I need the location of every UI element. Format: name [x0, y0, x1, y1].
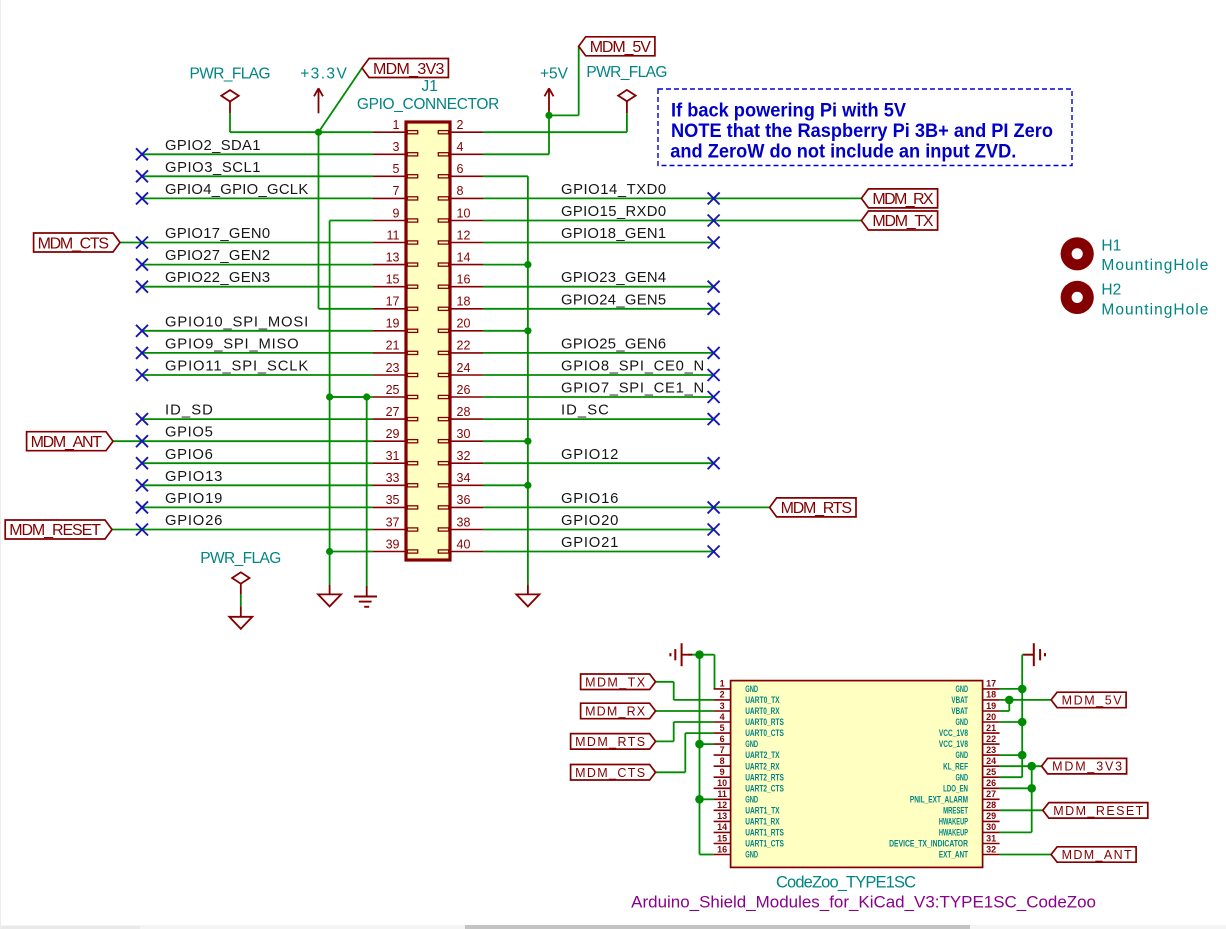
svg-text:GPIO25_GEN6: GPIO25_GEN6 [561, 336, 666, 352]
svg-text:14: 14 [457, 250, 471, 264]
svg-text:23: 23 [986, 745, 996, 755]
svg-text:MDM_5V: MDM_5V [590, 39, 652, 56]
svg-text:11: 11 [387, 228, 400, 242]
svg-text:GND: GND [745, 794, 758, 804]
svg-text:GPIO4_GPIO_GCLK: GPIO4_GPIO_GCLK [165, 182, 308, 198]
svg-text:HWAKEUP: HWAKEUP [939, 817, 968, 827]
svg-text:GPIO19: GPIO19 [165, 491, 222, 507]
svg-text:35: 35 [386, 493, 400, 507]
svg-text:25: 25 [386, 383, 400, 397]
svg-text:MountingHole: MountingHole [1101, 257, 1208, 274]
svg-text:19: 19 [986, 701, 996, 711]
svg-text:9: 9 [720, 767, 725, 777]
svg-text:MDM_RESET: MDM_RESET [1053, 804, 1143, 818]
svg-text:14: 14 [717, 822, 727, 832]
svg-text:30: 30 [457, 427, 471, 441]
svg-text:ID_SC: ID_SC [561, 403, 609, 419]
svg-text:H2: H2 [1101, 282, 1121, 299]
svg-text:20: 20 [986, 712, 996, 722]
svg-text:GPIO16: GPIO16 [561, 491, 618, 507]
svg-text:MDM_5V: MDM_5V [1062, 693, 1123, 707]
svg-text:37: 37 [386, 515, 400, 529]
svg-text:GPIO23_GEN4: GPIO23_GEN4 [561, 270, 666, 286]
svg-text:11: 11 [717, 789, 727, 799]
svg-text:UART0_RTS: UART0_RTS [745, 717, 784, 727]
svg-text:22: 22 [986, 734, 996, 744]
svg-text:MDM_RTS: MDM_RTS [781, 500, 852, 517]
svg-text:16: 16 [457, 273, 471, 287]
svg-text:32: 32 [986, 844, 996, 854]
svg-text:24: 24 [986, 756, 996, 766]
svg-text:VBAT: VBAT [951, 695, 968, 705]
svg-text:3: 3 [720, 701, 725, 711]
svg-text:HWAKEUP: HWAKEUP [939, 828, 968, 838]
svg-text:MDM_RX: MDM_RX [872, 191, 934, 208]
svg-text:UART0_RX: UART0_RX [745, 706, 779, 716]
svg-text:MDM_3V3: MDM_3V3 [373, 61, 444, 78]
svg-text:MDM_TX: MDM_TX [585, 675, 646, 689]
svg-text:GND: GND [956, 717, 969, 727]
svg-text:39: 39 [386, 537, 400, 551]
svg-text:15: 15 [717, 833, 727, 843]
svg-text:1: 1 [720, 679, 725, 689]
svg-text:PWR_FLAG: PWR_FLAG [200, 550, 281, 567]
svg-text:MountingHole: MountingHole [1101, 301, 1208, 318]
svg-text:15: 15 [386, 273, 400, 287]
svg-text:36: 36 [457, 493, 471, 507]
svg-text:4: 4 [720, 712, 725, 722]
svg-text:VCC_1V8: VCC_1V8 [939, 739, 968, 749]
svg-text:GND: GND [956, 772, 969, 782]
svg-text:UART0_CTS: UART0_CTS [745, 728, 784, 738]
svg-text:GPIO17_GEN0: GPIO17_GEN0 [165, 226, 270, 242]
svg-text:MDM_TX: MDM_TX [872, 213, 934, 230]
svg-text:GPIO_CONNECTOR: GPIO_CONNECTOR [357, 96, 499, 113]
svg-text:23: 23 [386, 361, 400, 375]
svg-text:UART1_RX: UART1_RX [745, 817, 779, 827]
svg-text:18: 18 [986, 690, 996, 700]
svg-text:9: 9 [393, 206, 400, 220]
svg-text:GND: GND [745, 684, 758, 694]
svg-text:GPIO21: GPIO21 [561, 535, 618, 551]
svg-text:GPIO18_GEN1: GPIO18_GEN1 [561, 226, 666, 242]
svg-text:GND: GND [745, 739, 758, 749]
svg-text:DEVICE_TX_INDICATOR: DEVICE_TX_INDICATOR [889, 839, 968, 849]
svg-text:12: 12 [717, 800, 727, 810]
svg-text:MDM_RESET: MDM_RESET [9, 522, 101, 539]
svg-text:2: 2 [457, 118, 464, 132]
svg-text:VBAT: VBAT [951, 706, 968, 716]
svg-text:3: 3 [393, 140, 400, 154]
svg-text:22: 22 [457, 339, 471, 353]
svg-text:24: 24 [457, 361, 471, 375]
svg-text:19: 19 [386, 317, 400, 331]
svg-text:GPIO27_GEN2: GPIO27_GEN2 [165, 248, 270, 264]
svg-text:+5V: +5V [540, 65, 569, 82]
svg-text:21: 21 [386, 339, 400, 353]
svg-text:12: 12 [457, 228, 471, 242]
svg-text:LDO_EN: LDO_EN [943, 783, 968, 793]
svg-text:40: 40 [457, 537, 471, 551]
svg-text:7: 7 [720, 745, 725, 755]
svg-text:MDM_CTS: MDM_CTS [38, 235, 109, 252]
svg-text:17: 17 [986, 679, 996, 689]
svg-text:6: 6 [720, 734, 725, 744]
svg-text:26: 26 [986, 778, 996, 788]
svg-text:GPIO11_SPI_SCLK: GPIO11_SPI_SCLK [165, 359, 308, 375]
svg-text:UART1_CTS: UART1_CTS [745, 839, 784, 849]
svg-text:MDM_ANT: MDM_ANT [31, 434, 103, 451]
svg-text:18: 18 [457, 295, 471, 309]
svg-text:GPIO6: GPIO6 [165, 447, 213, 463]
svg-text:GND: GND [745, 850, 758, 860]
svg-text:KL_REF: KL_REF [943, 761, 968, 771]
svg-text:EXT_ANT: EXT_ANT [939, 850, 968, 860]
svg-text:1: 1 [393, 118, 400, 132]
svg-text:H1: H1 [1101, 237, 1121, 254]
svg-text:28: 28 [986, 800, 996, 810]
svg-text:13: 13 [386, 250, 400, 264]
svg-text:NOTE that the Raspberry Pi 3B+: NOTE that the Raspberry Pi 3B+ and PI Ze… [671, 120, 1053, 142]
svg-text:ID_SD: ID_SD [165, 403, 213, 419]
svg-text:4: 4 [457, 140, 464, 154]
svg-text:GND: GND [956, 684, 969, 694]
svg-text:27: 27 [986, 789, 996, 799]
svg-text:GPIO22_GEN3: GPIO22_GEN3 [165, 270, 270, 286]
svg-text:UART2_RX: UART2_RX [745, 761, 779, 771]
svg-text:6: 6 [457, 162, 464, 176]
svg-text:GPIO5: GPIO5 [165, 425, 213, 441]
svg-text:26: 26 [457, 383, 471, 397]
svg-text:MDM_RX: MDM_RX [585, 705, 646, 719]
svg-text:UART2_CTS: UART2_CTS [745, 783, 784, 793]
svg-text:and ZeroW do not include an in: and ZeroW do not include an input ZVD. [670, 141, 1016, 163]
svg-text:If back powering Pi with 5V: If back powering Pi with 5V [671, 99, 906, 121]
svg-text:CodeZoo_TYPE1SC: CodeZoo_TYPE1SC [776, 874, 916, 892]
svg-text:GPIO15_RXD0: GPIO15_RXD0 [561, 204, 666, 220]
svg-text:PWR_FLAG: PWR_FLAG [190, 66, 271, 83]
svg-text:UART2_TX: UART2_TX [745, 750, 779, 760]
svg-text:PNIL_EXT_ALARM: PNIL_EXT_ALARM [910, 794, 968, 804]
svg-text:17: 17 [386, 295, 400, 309]
svg-text:13: 13 [717, 811, 727, 821]
svg-text:21: 21 [986, 723, 996, 733]
svg-text:25: 25 [986, 767, 996, 777]
svg-text:32: 32 [457, 449, 471, 463]
svg-text:GPIO26: GPIO26 [165, 513, 222, 529]
svg-text:10: 10 [717, 778, 727, 788]
svg-text:UART1_RTS: UART1_RTS [745, 828, 784, 838]
svg-text:2: 2 [720, 690, 725, 700]
svg-text:UART0_TX: UART0_TX [745, 695, 779, 705]
svg-text:GPIO24_GEN5: GPIO24_GEN5 [561, 292, 666, 308]
svg-text:5: 5 [720, 723, 725, 733]
svg-text:GPIO12: GPIO12 [561, 447, 618, 463]
svg-text:J1: J1 [422, 78, 438, 95]
svg-text:GPIO10_SPI_MOSI: GPIO10_SPI_MOSI [165, 314, 308, 330]
svg-text:GPIO8_SPI_CE0_N: GPIO8_SPI_CE0_N [561, 359, 704, 375]
svg-text:GPIO20: GPIO20 [561, 513, 618, 529]
svg-text:MRESET: MRESET [943, 805, 968, 815]
svg-text:29: 29 [386, 427, 400, 441]
svg-text:34: 34 [457, 471, 471, 485]
svg-text:GPIO2_SDA1: GPIO2_SDA1 [165, 138, 261, 154]
svg-text:29: 29 [986, 811, 996, 821]
svg-text:28: 28 [457, 405, 471, 419]
svg-text:GPIO9_SPI_MISO: GPIO9_SPI_MISO [165, 336, 299, 352]
svg-text:UART1_TX: UART1_TX [745, 805, 779, 815]
svg-text:31: 31 [986, 833, 996, 843]
svg-text:27: 27 [386, 405, 400, 419]
svg-text:GPIO13: GPIO13 [165, 469, 222, 485]
svg-text:Arduino_Shield_Modules_for_KiC: Arduino_Shield_Modules_for_KiCad_V3:TYPE… [631, 894, 1096, 912]
svg-text:GND: GND [956, 750, 969, 760]
svg-text:7: 7 [393, 184, 400, 198]
svg-text:31: 31 [386, 449, 400, 463]
svg-text:8: 8 [720, 756, 725, 766]
svg-text:30: 30 [986, 822, 996, 832]
svg-text:GPIO14_TXD0: GPIO14_TXD0 [561, 182, 666, 198]
svg-text:GPIO7_SPI_CE1_N: GPIO7_SPI_CE1_N [561, 381, 704, 397]
svg-text:16: 16 [717, 844, 727, 854]
svg-text:10: 10 [457, 206, 471, 220]
svg-text:38: 38 [457, 515, 471, 529]
svg-text:8: 8 [457, 184, 464, 198]
svg-text:5: 5 [393, 162, 400, 176]
svg-text:+3.3V: +3.3V [300, 65, 347, 82]
svg-text:PWR_FLAG: PWR_FLAG [586, 64, 667, 81]
svg-text:20: 20 [457, 317, 471, 331]
svg-text:VCC_1V8: VCC_1V8 [939, 728, 968, 738]
svg-text:33: 33 [386, 471, 400, 485]
svg-text:UART2_RTS: UART2_RTS [745, 772, 784, 782]
svg-text:GPIO3_SCL1: GPIO3_SCL1 [165, 160, 261, 176]
